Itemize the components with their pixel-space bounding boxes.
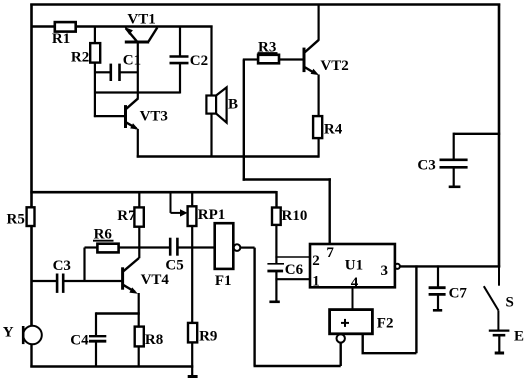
wire R6 to C5: [119, 246, 170, 248]
wire R3 to VT2 base: [279, 58, 304, 60]
wire RP1 top lead: [191, 191, 193, 206]
svg-text:C3: C3: [53, 258, 71, 274]
svg-text:F1: F1: [215, 273, 232, 289]
F1 output bubble: [234, 244, 241, 251]
wire speaker column: [210, 26, 212, 97]
svg-text:C3: C3: [417, 158, 435, 174]
wire RP1 bottom to R9 column: [191, 226, 193, 324]
resistor R5: [27, 207, 35, 226]
wire pin7 link horizontal: [243, 178, 331, 180]
svg-text:R10: R10: [282, 208, 308, 224]
svg-text:F2: F2: [377, 315, 394, 331]
wire F1 output drop: [253, 248, 255, 366]
wire rail drop to R10: [275, 191, 277, 209]
svg-text:1: 1: [312, 273, 320, 289]
wire pin4 to F2: [352, 287, 354, 309]
svg-text:R9: R9: [199, 329, 217, 345]
wire R10 to pin2/C6: [275, 225, 277, 264]
potentiometer RP1 wiper arm: [171, 191, 188, 216]
transistor VT2: [304, 40, 319, 75]
wire VT2 collector to top: [318, 4, 320, 41]
capacitor C2: [170, 26, 189, 94]
wire VT1 base / VT3 collector column: [137, 42, 139, 99]
wire junction rail y=92.5: [95, 91, 180, 93]
capacitor C6: [267, 264, 284, 302]
battery E: [489, 331, 510, 353]
resistor R1: [55, 22, 76, 32]
wire R2 branch: [94, 26, 96, 45]
wire R7 branch: [138, 191, 140, 207]
svg-text:7: 7: [326, 245, 334, 261]
wire top border rail: [30, 3, 500, 6]
ground bar under R9: [188, 375, 198, 378]
resistor R9: [188, 323, 197, 343]
switch S: [484, 266, 499, 330]
microphone Y: [23, 326, 42, 345]
transistor VT3: [126, 98, 139, 129]
svg-text:R4: R4: [324, 122, 343, 138]
wire mic bottom lead: [30, 344, 32, 367]
svg-text:S: S: [506, 294, 514, 310]
svg-text:VT3: VT3: [140, 108, 168, 124]
wire R6 row left: [85, 246, 98, 248]
F2 input bubble: [337, 334, 345, 342]
U1 pin3 bubble: [395, 264, 400, 269]
wire top supply rail y=26.5: [31, 25, 56, 27]
speaker B: [206, 87, 226, 122]
wire bottom link rail F1-F2: [254, 365, 341, 368]
capacitor C3 bottom-left: [31, 274, 123, 293]
resistor R6: [97, 244, 118, 253]
wire VT3 emitter drop: [137, 129, 139, 158]
wire R7 to VT4 collector: [138, 227, 140, 259]
svg-text:C2: C2: [190, 53, 208, 69]
wire VT2 emitter to R4: [318, 75, 320, 118]
potentiometer RP1: [188, 206, 197, 226]
transistor VT4: [123, 258, 139, 294]
svg-text:R1: R1: [52, 31, 70, 47]
wire pin2 feed: [275, 256, 310, 258]
wire F2 bubble lead: [340, 343, 342, 367]
svg-text:RP1: RP1: [198, 207, 226, 223]
wire pin1 feed: [275, 278, 310, 280]
wire pin7 drop: [329, 178, 331, 245]
capacitor C5: [170, 238, 215, 256]
resistor R8: [135, 327, 144, 347]
wire C4 bypass branch: [96, 312, 140, 314]
wire R3 left feed: [243, 58, 258, 60]
wire VT3 base feed: [94, 115, 125, 117]
svg-text:E: E: [514, 328, 524, 344]
wire R6 left leg down: [83, 248, 85, 283]
wire pin3 output rail: [400, 265, 500, 267]
IC U1: [310, 244, 395, 287]
label R6 underline: [93, 240, 114, 242]
wire F2 to pin3 rail bottom: [362, 352, 417, 354]
wire R9 ground stub: [191, 342, 193, 376]
wire riser to pin3 rail: [415, 265, 417, 353]
capacitor C7: [429, 265, 446, 310]
wire main mid rail y=192.5: [30, 191, 276, 194]
resistor R10: [272, 208, 281, 225]
wire R4 to mid rail: [318, 138, 320, 158]
svg-text:C6: C6: [285, 262, 304, 278]
svg-text:U1: U1: [345, 257, 363, 273]
svg-text:VT1: VT1: [127, 12, 155, 28]
transistor VT1: [124, 27, 157, 42]
wire bottom ground rail left: [30, 365, 193, 368]
svg-text:B: B: [228, 96, 238, 112]
svg-text:R8: R8: [145, 332, 163, 348]
wire R3 net column: [243, 60, 245, 181]
wire left border rail: [30, 4, 33, 327]
svg-text:3: 3: [381, 263, 389, 279]
svg-text:R7: R7: [117, 208, 136, 224]
wire VT4 emitter drop: [138, 293, 140, 328]
resistor R3: [258, 55, 279, 64]
svg-text:C7: C7: [449, 285, 468, 301]
label F2 plus: [341, 319, 349, 327]
resistor R7: [134, 207, 143, 226]
svg-text:2: 2: [312, 253, 320, 269]
resistor R2: [90, 43, 100, 63]
svg-text:VT2: VT2: [320, 58, 348, 74]
resistor R4: [313, 116, 322, 138]
wire right border rail: [498, 4, 501, 268]
svg-text:C4: C4: [70, 332, 89, 348]
wire R2 to VT3 base column: [94, 63, 96, 118]
capacitor C4: [89, 312, 106, 367]
svg-text:Y: Y: [3, 324, 14, 340]
wire F2 right leg: [362, 334, 364, 353]
capacitor C1: [95, 64, 138, 81]
gate F1: [215, 223, 234, 269]
label R3 underline: [258, 52, 278, 54]
svg-text:R2: R2: [71, 49, 89, 65]
wire F1 output: [240, 247, 254, 249]
wire mid rail y=156.5: [137, 155, 319, 157]
svg-text:R5: R5: [7, 211, 25, 227]
svg-text:VT4: VT4: [141, 272, 170, 288]
capacitor C3 top-right: [440, 133, 501, 187]
wire R8 to ground rail: [138, 346, 140, 367]
buzzer F2: [330, 310, 373, 334]
